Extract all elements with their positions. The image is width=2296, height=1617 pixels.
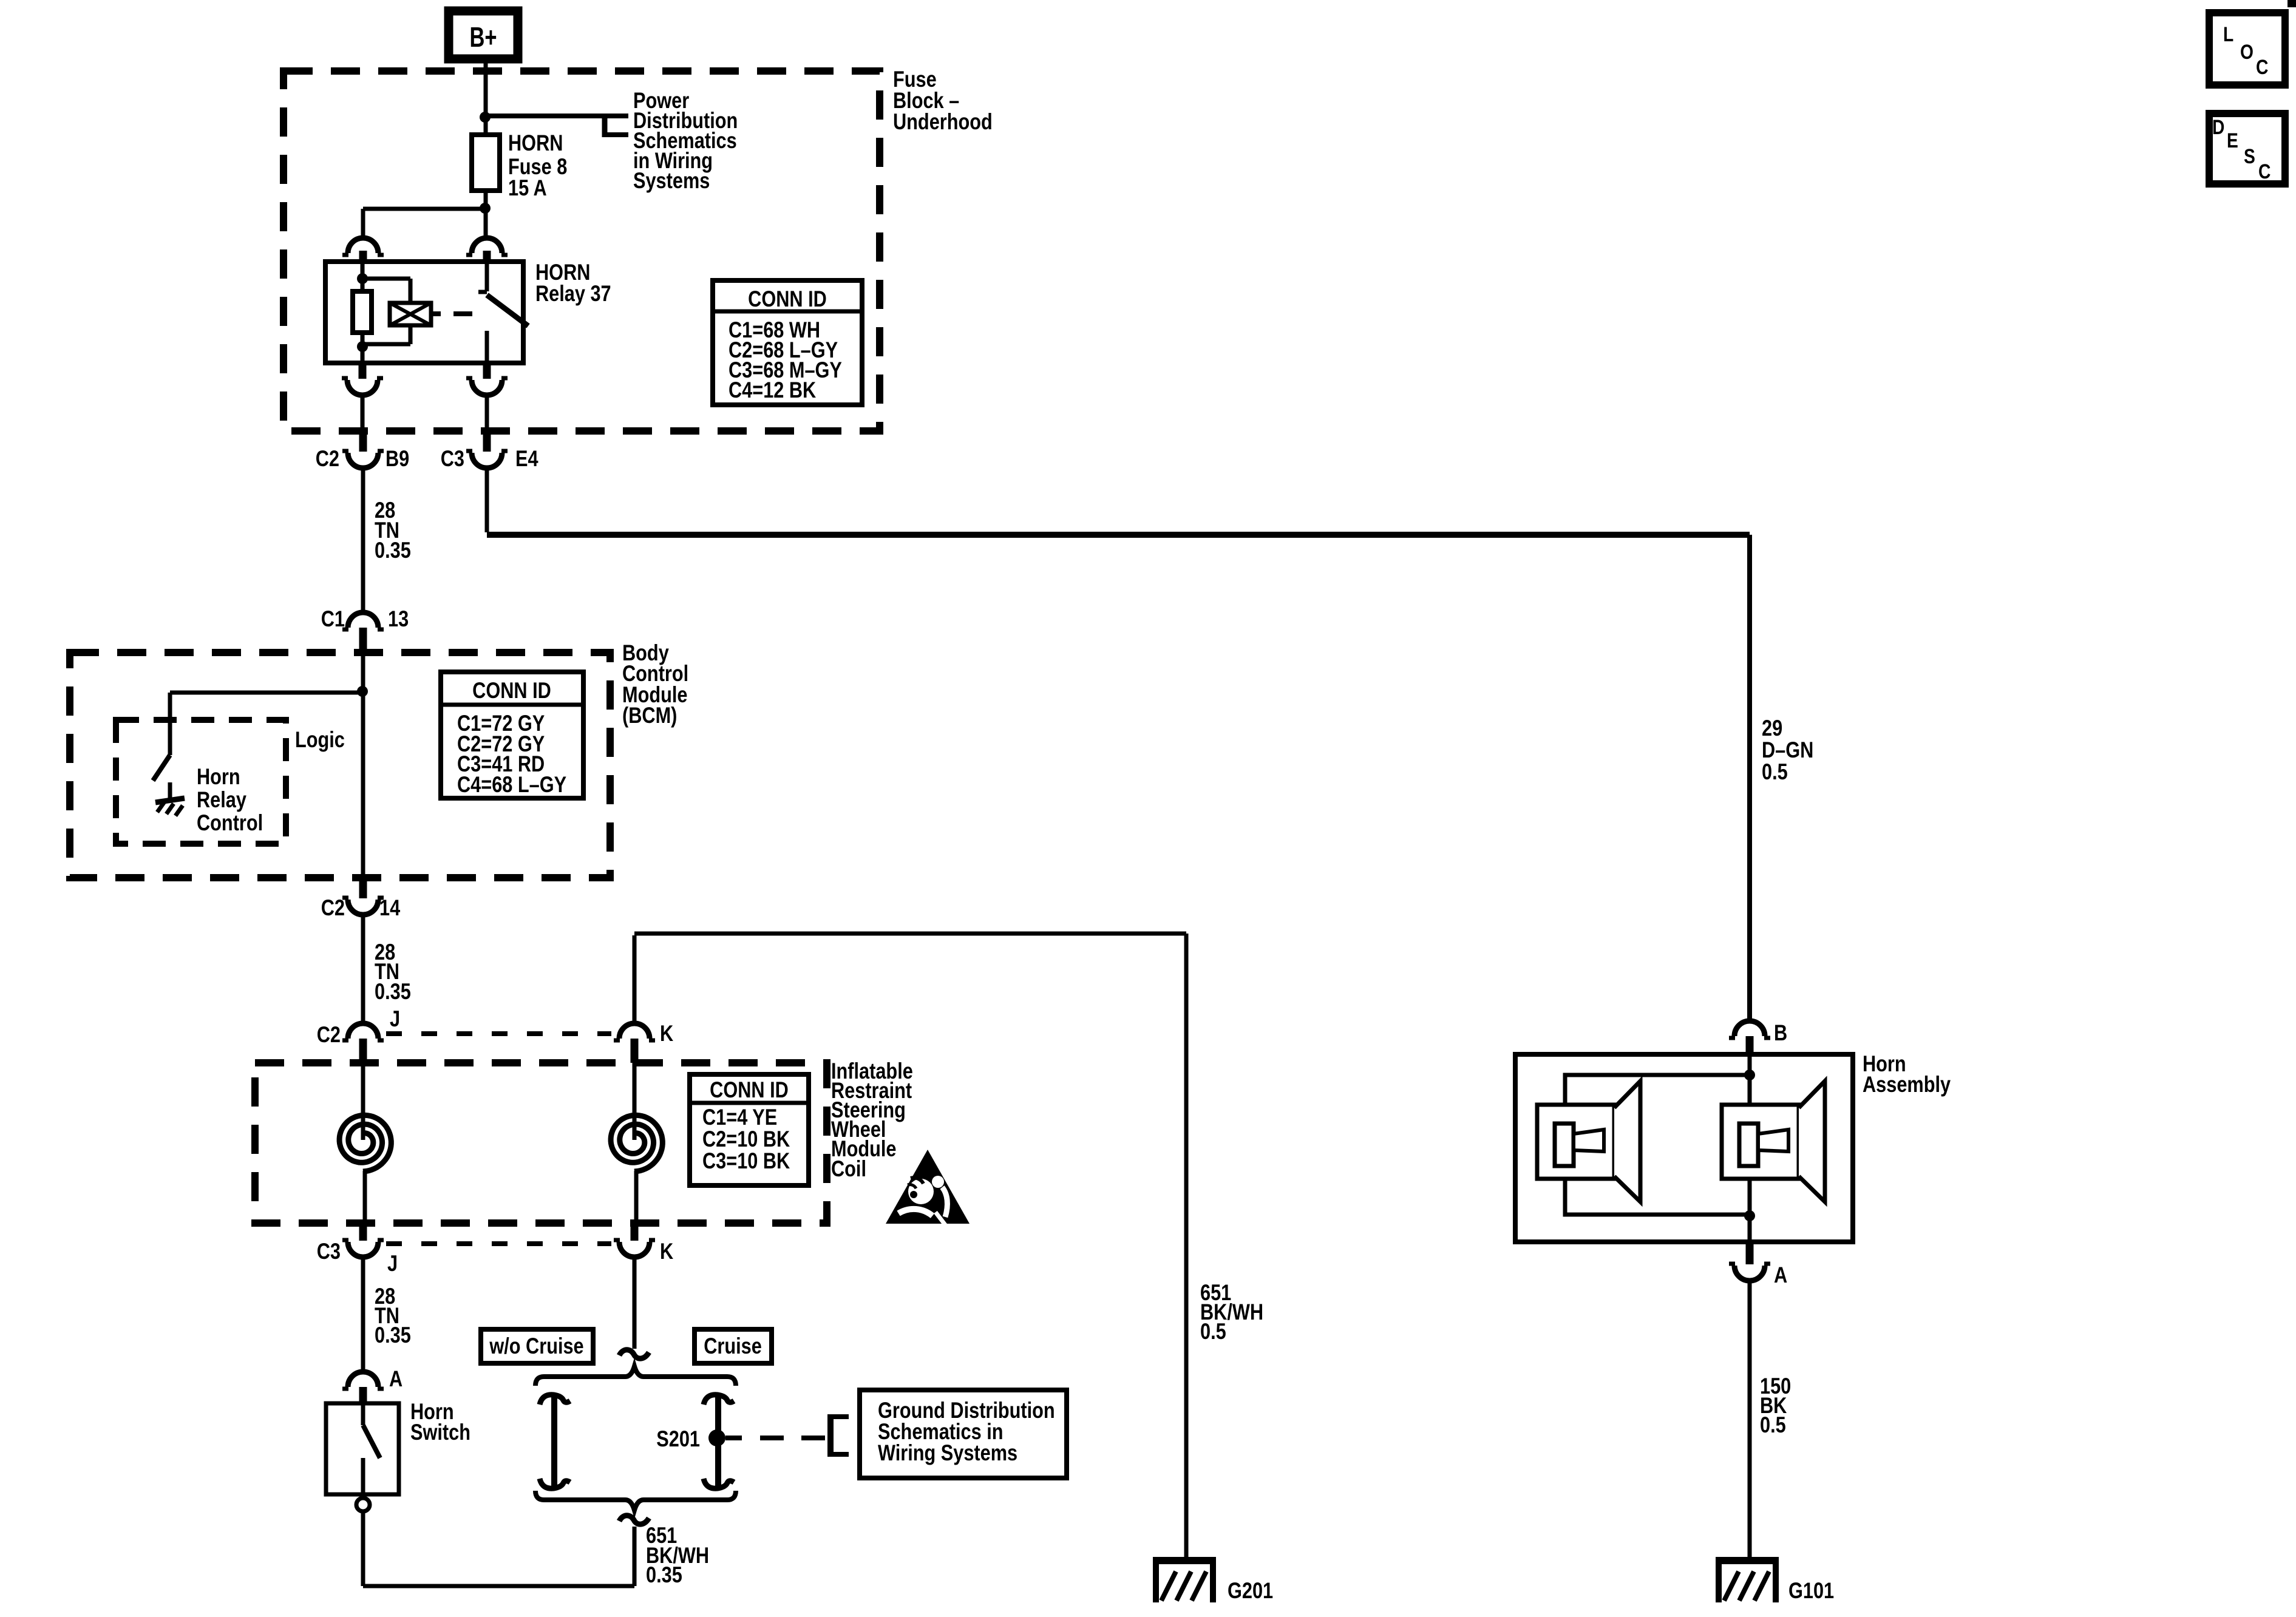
svg-text:(BCM): (BCM): [622, 703, 677, 728]
svg-text:B+: B+: [469, 21, 497, 53]
svg-text:Coil: Coil: [831, 1156, 866, 1181]
svg-text:C2: C2: [321, 895, 345, 920]
svg-text:K: K: [660, 1021, 674, 1046]
svg-text:Cruise: Cruise: [704, 1334, 762, 1358]
svg-text:C: C: [2256, 56, 2268, 79]
svg-text:C4=68 L–GY: C4=68 L–GY: [457, 772, 566, 797]
svg-text:Logic: Logic: [295, 727, 345, 752]
svg-text:A: A: [389, 1366, 402, 1391]
svg-text:C4=12 BK: C4=12 BK: [729, 378, 817, 402]
svg-text:E4: E4: [515, 446, 538, 471]
svg-text:13: 13: [388, 606, 409, 631]
svg-text:C1: C1: [321, 606, 345, 631]
svg-text:w/o Cruise: w/o Cruise: [489, 1334, 583, 1358]
svg-text:CONN ID: CONN ID: [710, 1077, 789, 1102]
svg-text:L: L: [2223, 23, 2233, 46]
svg-text:C: C: [2258, 160, 2271, 183]
svg-text:HORN: HORN: [508, 131, 563, 155]
svg-text:Relay: Relay: [197, 787, 246, 812]
svg-text:0.5: 0.5: [1762, 759, 1788, 784]
svg-text:D: D: [2212, 116, 2224, 139]
svg-text:14: 14: [379, 895, 400, 920]
svg-text:Relay 37: Relay 37: [535, 281, 611, 306]
svg-text:G201: G201: [1228, 1578, 1273, 1603]
svg-text:15 A: 15 A: [508, 175, 547, 200]
svg-text:C3: C3: [317, 1239, 341, 1264]
svg-text:S201: S201: [656, 1426, 700, 1451]
svg-text:Underhood: Underhood: [893, 109, 993, 134]
svg-text:0.35: 0.35: [375, 538, 411, 563]
svg-text:CONN ID: CONN ID: [472, 678, 551, 703]
svg-text:E: E: [2227, 129, 2238, 152]
svg-text:S: S: [2244, 145, 2255, 168]
svg-text:C3: C3: [441, 446, 464, 471]
svg-text:Control: Control: [197, 810, 263, 835]
svg-text:0.5: 0.5: [1200, 1319, 1226, 1344]
svg-text:O: O: [2240, 41, 2254, 64]
svg-text:B9: B9: [385, 446, 409, 471]
svg-text:Wiring Systems: Wiring Systems: [878, 1440, 1017, 1465]
svg-text:B: B: [1774, 1020, 1787, 1045]
svg-text:CONN ID: CONN ID: [748, 286, 827, 311]
svg-text:0.35: 0.35: [375, 1323, 411, 1347]
svg-text:Horn: Horn: [197, 764, 240, 789]
svg-text:0.5: 0.5: [1760, 1412, 1786, 1437]
svg-text:Assembly: Assembly: [1863, 1072, 1951, 1097]
svg-text:Systems: Systems: [633, 168, 710, 193]
svg-text:Switch: Switch: [410, 1420, 470, 1445]
svg-text:C2: C2: [317, 1022, 341, 1047]
svg-text:A: A: [1774, 1263, 1787, 1287]
svg-text:J: J: [390, 1006, 400, 1031]
svg-text:0.35: 0.35: [375, 979, 411, 1004]
svg-text:C2: C2: [316, 446, 339, 471]
svg-text:C3=10 BK: C3=10 BK: [702, 1148, 790, 1173]
svg-text:K: K: [660, 1239, 674, 1264]
svg-text:G101: G101: [1788, 1578, 1834, 1603]
svg-text:J: J: [387, 1251, 398, 1276]
svg-text:0.35: 0.35: [646, 1562, 682, 1587]
